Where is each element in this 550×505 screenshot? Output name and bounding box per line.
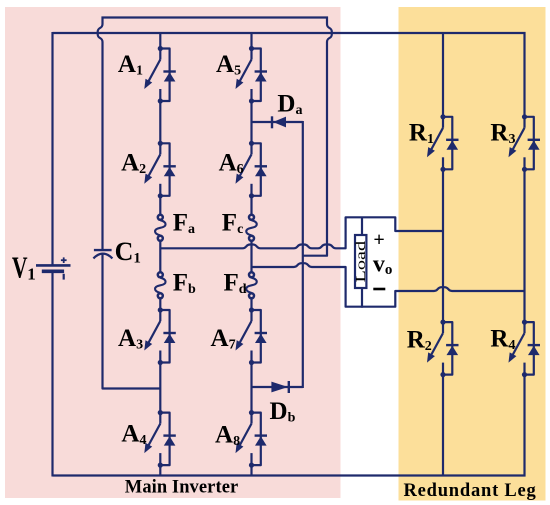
fuse Fc: bottom ring [249, 236, 254, 241]
switch R3: blade arrowhead [509, 147, 517, 157]
switch A5: blade arrowhead [236, 79, 244, 89]
battery V1 negative plate [42, 269, 64, 273]
svg-text:1: 1 [27, 265, 36, 284]
switch R1: diode branch [443, 117, 452, 170]
capacitor C1 flat plate [94, 249, 112, 251]
wire: leg2 Fd-A7 [250, 298, 252, 310]
wire: leg2 rail to A5 [250, 33, 252, 49]
label - output [373, 288, 385, 291]
wire: Da branch [252, 121, 303, 123]
switch A2: blade arrowhead [144, 174, 152, 184]
switch A1: upper stub [159, 49, 161, 60]
switch A4: lower stub [159, 453, 161, 465]
switch A6: diode triangle [255, 167, 267, 176]
fuse Fc: S element [246, 220, 257, 235]
switch A1: top junction dot [158, 46, 163, 51]
switch R3: diode cathode bar [528, 139, 540, 141]
wire: V1 branch lower [51, 271, 53, 476]
switch A6: upper stub [250, 143, 252, 154]
switch A7: bottom junction dot [249, 360, 254, 365]
switch A1: diode triangle [164, 72, 176, 81]
switch A4: blade arrowhead [144, 443, 152, 453]
wire: C1 lower lead and return to leg 1 [103, 254, 161, 389]
wire: output + line from node a to load loop [160, 217, 443, 248]
wire: leg2 A7-A8 (Db tap) [250, 363, 252, 413]
switch R3: lower stub [523, 157, 525, 169]
switch A4: top junction dot [158, 410, 163, 415]
switch R2: top junction dot [440, 320, 445, 325]
switch A8: diode triangle [255, 436, 267, 445]
switch A5: bottom junction dot [249, 98, 254, 103]
wire: V1 branch upper [51, 32, 53, 265]
switch A5: top junction dot [249, 46, 254, 51]
switch A1: diode branch [160, 49, 169, 102]
diode Da triangle [273, 117, 286, 128]
fuse Fd: top ring [249, 272, 254, 277]
switch R1: blade [429, 128, 443, 154]
fuse Fa: top ring [158, 215, 163, 220]
switch R3: blade [511, 128, 525, 154]
switch R4: lower stub [523, 363, 525, 375]
switch R4: blade arrowhead [509, 352, 517, 362]
wire: outer top bus [102, 16, 329, 18]
switch A7: diode branch [252, 310, 261, 363]
svg-text:Main Inverter: Main Inverter [125, 478, 238, 498]
switch R2: upper stub [442, 322, 444, 333]
switch R3: upper stub [523, 117, 525, 128]
fuse Fa: bottom ring [158, 236, 163, 241]
switch A5: blade [238, 60, 252, 86]
switch R2: diode branch [443, 322, 452, 375]
switch A3: lower stub [159, 351, 161, 363]
wire: leg2 A6-Fc [250, 196, 252, 214]
switch A4: bottom junction dot [158, 463, 163, 468]
switch A4: diode triangle [164, 436, 176, 445]
fuse Fb: top ring [158, 272, 163, 277]
battery V1 plus mark [61, 259, 67, 261]
wire: leg2 A8-rail [250, 465, 252, 476]
switch A2: upper stub [159, 143, 161, 154]
switch A1: lower stub [159, 89, 161, 101]
switch A1: blade arrowhead [144, 79, 152, 89]
switch A2: diode branch [160, 143, 169, 196]
diode Db cathode bar [288, 381, 290, 393]
switch R3: bottom junction dot [522, 167, 527, 172]
wire: leg1 rail to A1 [159, 33, 161, 49]
switch A3: top junction dot [158, 307, 163, 312]
switch R2: bottom junction dot [440, 372, 445, 377]
switch R4: diode triangle [528, 346, 540, 355]
switch R3: diode branch [525, 117, 534, 170]
svg-text:Redundant Leg: Redundant Leg [404, 481, 537, 501]
svg-text:V: V [12, 250, 28, 285]
capacitor C1 curved plate [93, 254, 112, 259]
wire: load upper lead [361, 217, 363, 236]
switch A8: diode branch [252, 413, 261, 466]
switch A4: upper stub [159, 413, 161, 424]
diode Da cathode bar [271, 116, 273, 128]
switch A2: bottom junction dot [158, 193, 163, 198]
switch A2: blade [146, 154, 160, 180]
switch R4: bottom junction dot [522, 372, 527, 377]
switch R4: diode cathode bar [528, 344, 540, 346]
switch A6: bottom junction dot [249, 193, 254, 198]
switch R1: top junction dot [440, 114, 445, 119]
wire: bottom DC- rail [53, 474, 526, 476]
fuse Fd: S element [246, 278, 257, 293]
switch R2: blade arrowhead [427, 352, 435, 362]
switch R1: upper stub [442, 117, 444, 128]
switch A3: diode cathode bar [163, 332, 175, 334]
switch R2: diode triangle [447, 346, 459, 355]
wire: load lower lead [361, 288, 363, 308]
battery V1 minus mark [63, 274, 65, 280]
switch A1: diode cathode bar [163, 70, 175, 72]
wire: Db branch [252, 386, 303, 388]
switch A1: bottom junction dot [158, 98, 163, 103]
fuse Fb: S element [155, 278, 166, 293]
switch A6: blade [238, 154, 252, 180]
svg-text:+: + [373, 229, 384, 251]
switch R3: top junction dot [522, 114, 527, 119]
switch R3: diode triangle [528, 141, 540, 150]
switch A6: lower stub [250, 184, 252, 196]
switch A2: lower stub [159, 184, 161, 196]
wire: R2 bottom [442, 375, 444, 476]
switch A6: diode branch [252, 143, 261, 196]
switch A3: blade arrowhead [144, 340, 152, 350]
wire: leg1 A2-Fa [159, 196, 161, 214]
fuse Fd: bottom ring [249, 293, 254, 298]
switch R2: lower stub [442, 363, 444, 375]
switch A7: diode triangle [255, 334, 267, 343]
switch A5: upper stub [250, 49, 252, 60]
fuse Fb: bottom ring [158, 293, 163, 298]
switch R1: diode cathode bar [446, 139, 458, 141]
switch A6: top junction dot [249, 141, 254, 146]
wire: leg2 Fc-node b-Fd [250, 242, 252, 272]
wire: bus right drop with hop over rail (vertical B) [303, 17, 332, 256]
switch R1: blade arrowhead [427, 147, 435, 157]
switch A8: top junction dot [249, 410, 254, 415]
wire: bus left drop with hop over rail (to C1) [98, 17, 103, 250]
wire: R4 bottom [523, 375, 525, 477]
switch A4: blade [146, 424, 160, 450]
wire: leg1 A1-A2 [159, 101, 161, 143]
diode Db triangle [271, 382, 288, 393]
wire: leg1 A4-rail [159, 465, 161, 476]
switch R1: diode triangle [447, 141, 459, 150]
switch A7: top junction dot [249, 307, 254, 312]
switch A6: diode cathode bar [255, 165, 267, 167]
wire: leg1 A3-A4 [159, 363, 161, 413]
battery V1 positive plate [36, 264, 71, 267]
fuse Fc: top ring [249, 215, 254, 220]
wire: R1-R2 mid [442, 169, 444, 322]
svg-text:Load: Load [353, 240, 368, 282]
switch A3: bottom junction dot [158, 360, 163, 365]
pink background: Main Inverter region [5, 7, 341, 498]
wire: leg2 A5-A6 (Da tap) [250, 101, 252, 143]
switch A3: blade [146, 321, 160, 347]
switch A2: top junction dot [158, 141, 163, 146]
switch A5: diode triangle [255, 72, 267, 81]
switch R1: bottom junction dot [440, 167, 445, 172]
wire: R3-R4 mid [523, 169, 525, 322]
switch A5: diode branch [252, 49, 261, 102]
switch A4: diode cathode bar [163, 434, 175, 436]
switch R4: upper stub [523, 322, 525, 333]
switch R4: top junction dot [522, 320, 527, 325]
wire: leg1 Fa-node a-Fb [159, 242, 161, 272]
switch A3: diode branch [160, 310, 169, 363]
wire: output - line from node b to load loop [252, 263, 526, 307]
wire: leg1 Fb-A3 [159, 298, 161, 310]
switch A8: blade arrowhead [236, 443, 244, 453]
wire: clamp vertical A (Da to Db) [302, 121, 304, 388]
switch A1: blade [146, 60, 160, 86]
switch A8: diode cathode bar [255, 434, 267, 436]
switch R2: diode cathode bar [446, 344, 458, 346]
switch A7: upper stub [250, 310, 252, 321]
switch A6: blade arrowhead [236, 174, 244, 184]
switch A8: blade [238, 424, 252, 450]
wire: R3 leg top [523, 32, 525, 117]
switch A3: diode triangle [164, 334, 176, 343]
switch R1: lower stub [442, 157, 444, 169]
switch A4: diode branch [160, 413, 169, 466]
switch A2: diode cathode bar [163, 165, 175, 167]
switch A5: diode cathode bar [255, 70, 267, 72]
fuse Fa: S element [155, 220, 166, 235]
switch A5: lower stub [250, 89, 252, 101]
switch A7: blade arrowhead [236, 340, 244, 350]
switch A7: diode cathode bar [255, 332, 267, 334]
wire: top DC+ rail [53, 32, 526, 34]
switch R4: diode branch [525, 322, 534, 375]
switch A7: blade [238, 321, 252, 347]
load box [355, 235, 366, 288]
switch A8: upper stub [250, 413, 252, 424]
switch A2: diode triangle [164, 167, 176, 176]
switch A8: bottom junction dot [249, 463, 254, 468]
switch A3: upper stub [159, 310, 161, 321]
switch R2: blade [429, 333, 443, 359]
yellow background: Redundant Leg region [399, 7, 546, 501]
switch A8: lower stub [250, 453, 252, 465]
switch R4: blade [511, 333, 525, 359]
switch A7: lower stub [250, 351, 252, 363]
wire: R1 leg top [442, 33, 444, 117]
svg-text:vo: vo [373, 251, 393, 278]
